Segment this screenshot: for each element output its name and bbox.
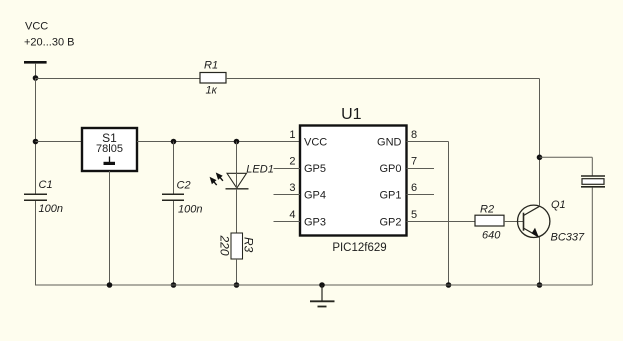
wire pin 5 to R2 (407, 221, 476, 223)
wire regulator output rail (137, 141, 300, 143)
svg-text:BC337: BC337 (551, 232, 586, 244)
svg-text:1: 1 (289, 129, 295, 141)
junction left at 5V rail (33, 139, 39, 145)
wire Q1 collector vertical (539, 79, 541, 207)
svg-text:C1: C1 (39, 179, 53, 191)
svg-text:78l05: 78l05 (96, 143, 123, 155)
svg-text:GP5: GP5 (304, 163, 326, 175)
svg-text:PIC12f629: PIC12f629 (332, 242, 386, 254)
wire pin 4 stub (274, 221, 301, 223)
junction C2 top (171, 139, 177, 145)
piezo buzzer (581, 176, 605, 187)
svg-text:GP4: GP4 (304, 190, 326, 202)
svg-text:U1: U1 (341, 106, 362, 123)
wire pin 7 stub (407, 168, 435, 170)
transistor Q1 (518, 205, 550, 238)
junction top-left (33, 75, 39, 81)
wire regulator ground lead (109, 171, 111, 285)
junction R3 bottom (234, 282, 240, 288)
svg-text:6: 6 (411, 182, 417, 194)
svg-text:GP1: GP1 (379, 190, 401, 202)
resistor R2 (475, 215, 504, 226)
wire top rail right segment (226, 78, 540, 80)
junction collector / buzzer (537, 155, 543, 161)
svg-text:GND: GND (377, 136, 402, 148)
LED LED1 (210, 173, 248, 189)
wire 5V rail to regulator (36, 141, 83, 143)
wire left vertical lower (C1 to bottom rail) (35, 201, 37, 285)
svg-text:220: 220 (217, 235, 231, 256)
wire top rail left segment (36, 78, 201, 80)
svg-text:2: 2 (289, 156, 295, 168)
svg-text:VCC: VCC (304, 136, 327, 148)
wire bottom ground rail (35, 284, 592, 286)
wire C2 lower lead (173, 201, 175, 285)
svg-text:GP2: GP2 (379, 216, 401, 228)
svg-text:100n: 100n (39, 203, 63, 215)
svg-text:100n: 100n (178, 204, 202, 216)
capacitor C2 (162, 194, 184, 200)
wire pin 3 stub (274, 194, 301, 196)
junction emitter at bottom rail (537, 282, 543, 288)
resistor R3 (231, 233, 243, 259)
svg-text:640: 640 (482, 230, 501, 242)
regulator S1 78l05 (82, 128, 137, 171)
svg-text:Q1: Q1 (551, 199, 566, 211)
wire buzzer bottom lead (591, 188, 593, 286)
junction S1 ground at bottom rail (107, 282, 113, 288)
svg-text:R1: R1 (204, 59, 218, 71)
wire pin 6 stub (407, 194, 435, 196)
wire LED anode lead (236, 142, 238, 174)
svg-text:+20...30 В: +20...30 В (24, 36, 74, 48)
junction GND at bottom rail (446, 282, 452, 288)
node VCC label (24, 21, 74, 49)
wire collector junction to buzzer (540, 156, 593, 158)
wire Q1 emitter vertical (539, 237, 541, 285)
svg-text:GP0: GP0 (379, 163, 401, 175)
junction C2 bottom (171, 282, 177, 288)
wire pin 8 GND horizontal (407, 141, 449, 143)
wire left vertical upper (to C1) (35, 78, 37, 194)
svg-text:R3: R3 (242, 237, 256, 253)
wire VCC bar to top rail (35, 64, 37, 78)
IC U1 PIC12f629 (300, 106, 407, 236)
svg-text:C2: C2 (177, 179, 191, 191)
svg-text:7: 7 (411, 156, 417, 168)
svg-text:3: 3 (289, 182, 295, 194)
capacitor C1 (24, 194, 47, 200)
svg-text:8: 8 (411, 129, 417, 141)
svg-text:1к: 1к (206, 84, 218, 96)
ground (310, 285, 335, 307)
wire pin 2 stub (274, 168, 301, 170)
svg-text:LED1: LED1 (246, 164, 274, 176)
wire C2 upper lead (173, 142, 175, 195)
wire R2 to Q1 base (504, 221, 524, 223)
junction ground symbol (319, 282, 325, 288)
svg-text:R2: R2 (480, 203, 494, 215)
wire LED cathode to R3 (236, 189, 238, 233)
wire pin 8 GND vertical (448, 142, 450, 286)
svg-text:5: 5 (411, 209, 417, 221)
svg-text:GP3: GP3 (304, 216, 326, 228)
junction LED top (234, 139, 240, 145)
VCC power rail symbol (24, 61, 47, 64)
wire R3 to bottom rail (236, 259, 238, 285)
svg-text:VCC: VCC (25, 21, 48, 33)
resistor R1 (200, 73, 226, 84)
svg-text:4: 4 (289, 209, 295, 221)
wire buzzer top lead (591, 157, 593, 175)
